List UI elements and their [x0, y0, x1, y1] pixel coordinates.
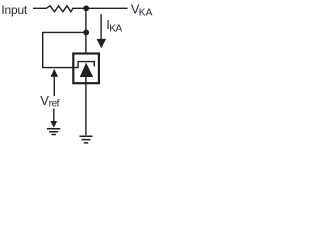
svg-text:KA: KA: [109, 23, 122, 34]
svg-text:KA: KA: [139, 8, 153, 19]
svg-text:Input: Input: [1, 3, 28, 17]
svg-text:ref: ref: [49, 99, 60, 110]
